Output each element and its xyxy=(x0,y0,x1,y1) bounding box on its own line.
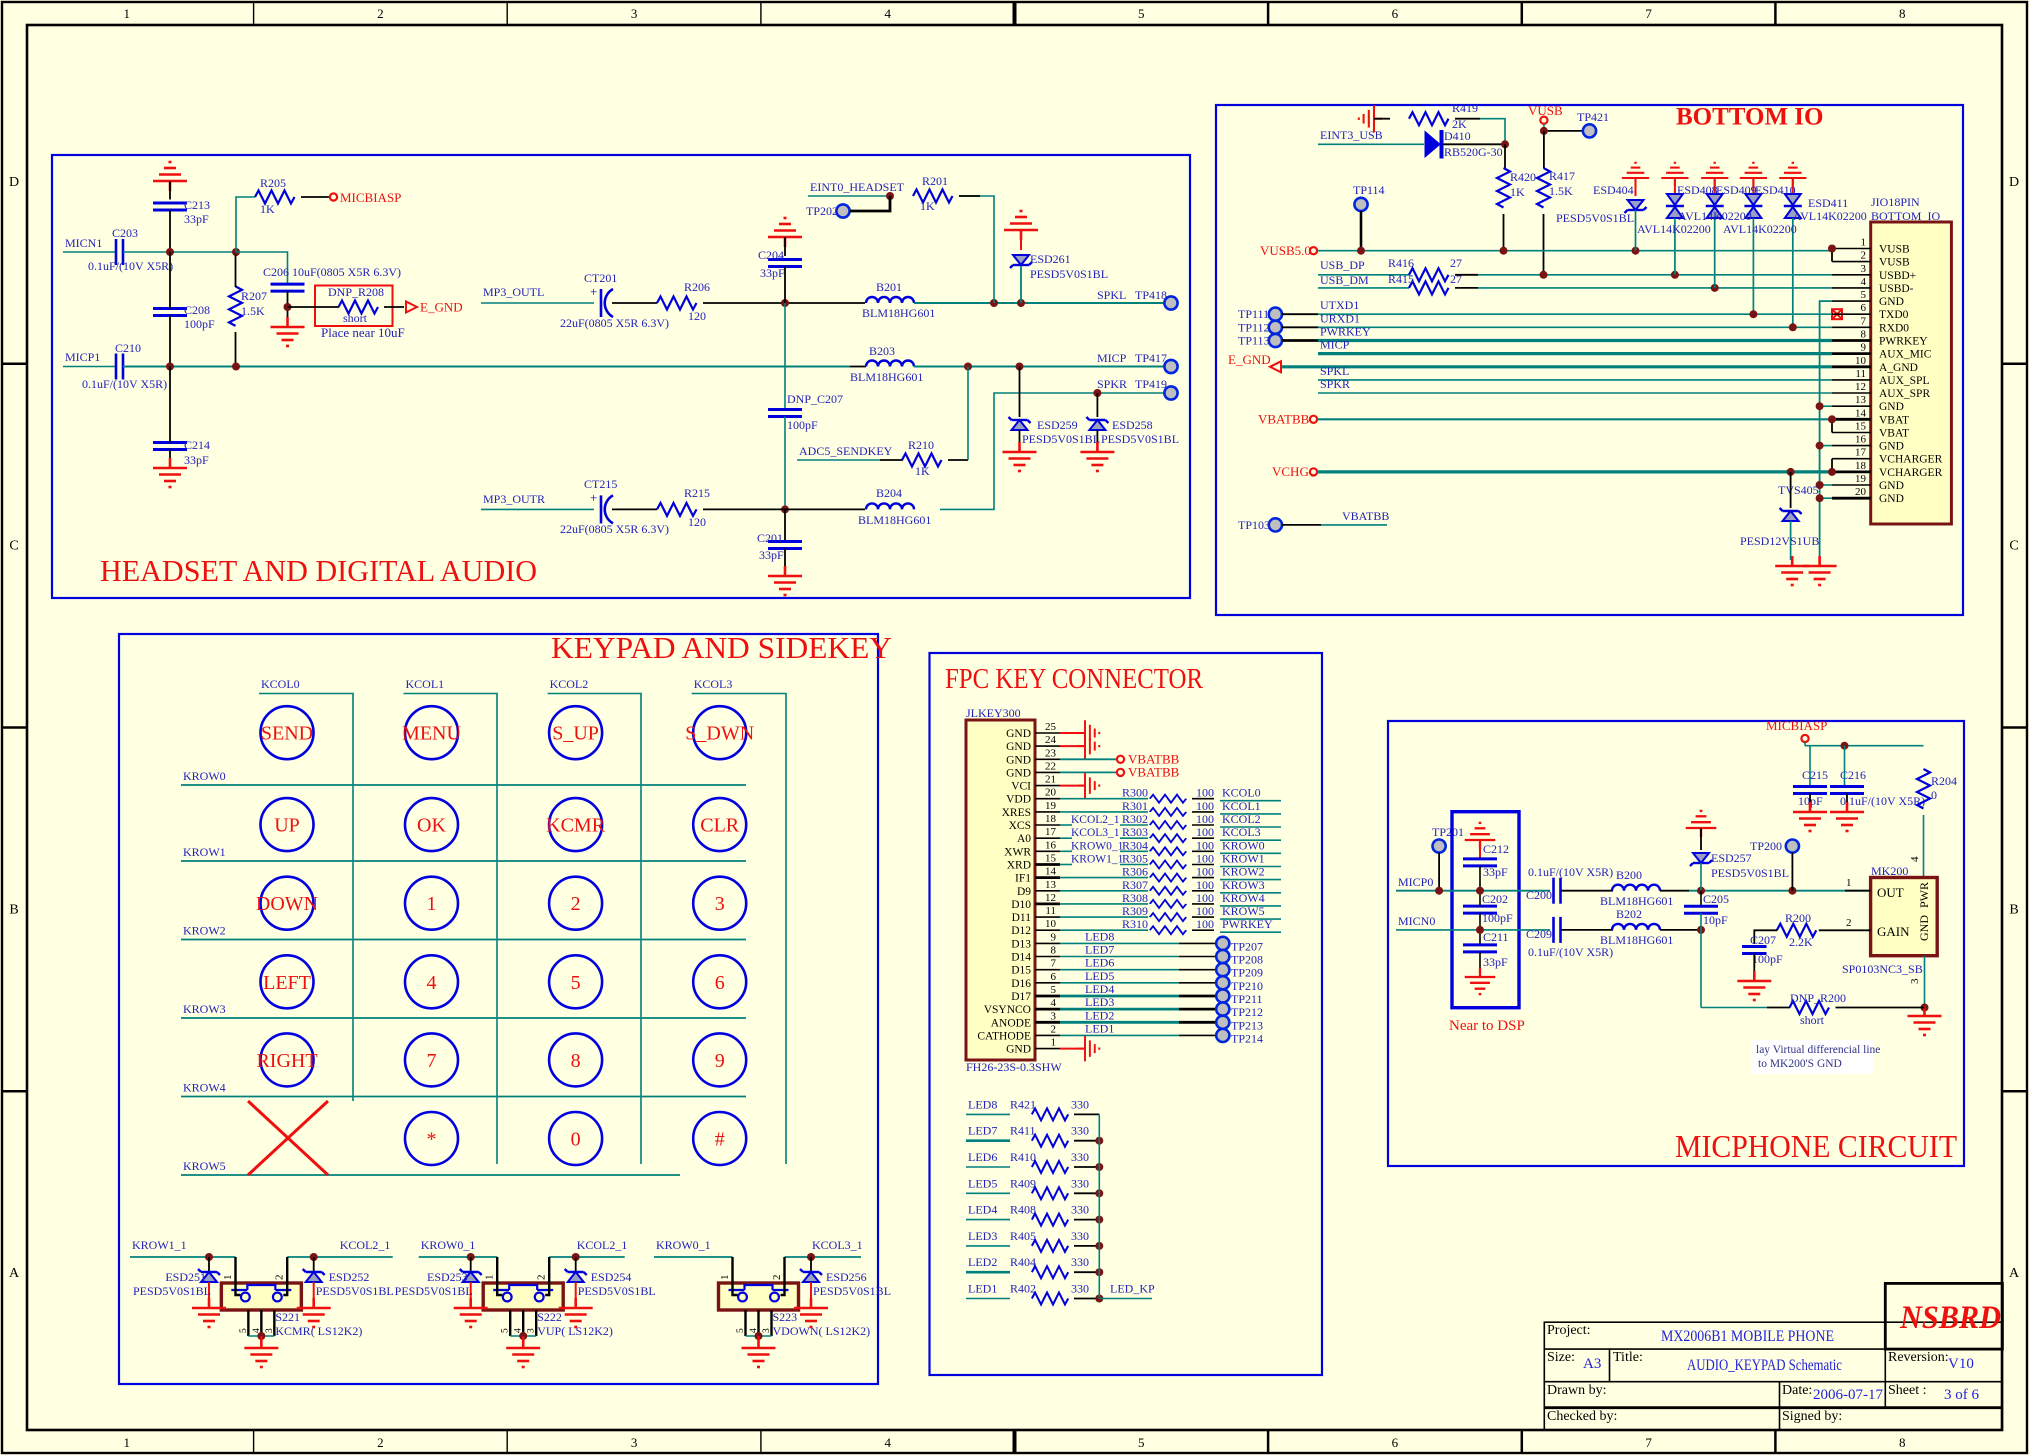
svg-text:USBD-: USBD- xyxy=(1879,283,1914,295)
ground below ESD258 xyxy=(1080,442,1114,471)
svg-text:4: 4 xyxy=(884,1435,891,1450)
wire gnd to R419 xyxy=(1374,118,1390,120)
svg-text:TP417: TP417 xyxy=(1135,351,1167,365)
svg-text:SPKL: SPKL xyxy=(1097,288,1126,302)
svg-text:100: 100 xyxy=(1196,812,1214,826)
svg-text:12: 12 xyxy=(1855,381,1866,393)
wire MICP0 xyxy=(1396,890,1550,892)
svg-text:LED5: LED5 xyxy=(968,1176,997,1190)
svg-text:VCHARGER: VCHARGER xyxy=(1879,467,1943,479)
note lay Virtual differencial line xyxy=(1751,1040,1873,1074)
svg-text:SEND: SEND xyxy=(261,723,313,745)
svg-text:R206: R206 xyxy=(684,280,710,294)
pin 12 D10 of JLKEY300 xyxy=(1035,903,1060,906)
svg-text:S221: S221 xyxy=(275,1310,300,1324)
testpoint TP103 xyxy=(1269,518,1282,531)
zone column tick top 7 xyxy=(1774,2,1777,25)
svg-text:R205: R205 xyxy=(260,176,286,190)
svg-text:lay Virtual differencial line: lay Virtual differencial line xyxy=(1756,1044,1880,1056)
junction R208 tap xyxy=(284,303,292,311)
svg-text:ESD258: ESD258 xyxy=(1112,418,1153,432)
svg-text:KCOL1: KCOL1 xyxy=(1222,799,1261,813)
pin 20 GND of JIO18PIN xyxy=(1832,497,1871,500)
pin 9 AUX_MIC of JIO18PIN xyxy=(1832,352,1871,355)
testpoint TP114 xyxy=(1354,198,1367,211)
junction UTXD1-ESD410 xyxy=(1749,310,1757,318)
svg-text:LED3: LED3 xyxy=(1085,995,1114,1009)
wire gnd to ESD411 xyxy=(1792,178,1794,196)
svg-text:R409: R409 xyxy=(1010,1176,1036,1190)
key * xyxy=(405,1112,458,1165)
svg-text:1: 1 xyxy=(222,1275,234,1281)
wire LED2 to TP213 xyxy=(1060,1021,1179,1024)
svg-text:7: 7 xyxy=(427,1050,437,1072)
pin 3 USBD+ of JIO18PIN xyxy=(1832,274,1871,276)
svg-text:KCOL3: KCOL3 xyxy=(1222,825,1261,839)
svg-text:R308: R308 xyxy=(1122,891,1148,905)
zone column tick bottom 5 xyxy=(1267,1430,1270,1453)
wire R208 right to E_GND xyxy=(384,306,404,308)
svg-text:TP210: TP210 xyxy=(1231,979,1263,993)
capacitor C215 xyxy=(1809,746,1811,787)
svg-text:RXD0: RXD0 xyxy=(1879,322,1909,334)
svg-text:Reversion:: Reversion: xyxy=(1888,1350,1949,1365)
svg-text:FH26-23S-0.3SHW: FH26-23S-0.3SHW xyxy=(966,1060,1062,1074)
svg-text:BLM18HG601: BLM18HG601 xyxy=(862,306,935,320)
section box HEADSET AND DIGITAL AUDIO xyxy=(52,155,1190,598)
pin 22 GND of JLKEY300 xyxy=(1035,771,1060,773)
diode ESD258 xyxy=(1096,393,1098,417)
svg-text:DNP_R208: DNP_R208 xyxy=(328,285,384,299)
pin 11 D11 of JLKEY300 xyxy=(1035,916,1060,918)
svg-text:S_DWN: S_DWN xyxy=(685,723,754,745)
svg-text:AUX_MIC: AUX_MIC xyxy=(1879,349,1932,361)
zone column tick top 6 xyxy=(1521,2,1524,25)
svg-text:KROW0: KROW0 xyxy=(1222,838,1265,852)
resistor R302 100 to KCOL2 xyxy=(1060,824,1072,826)
svg-text:D9: D9 xyxy=(1017,886,1031,898)
svg-text:KROW1: KROW1 xyxy=(183,845,226,859)
svg-text:B204: B204 xyxy=(876,486,902,500)
svg-text:0.1uF/(10V X5R): 0.1uF/(10V X5R) xyxy=(1528,945,1613,959)
svg-text:1.5K: 1.5K xyxy=(241,304,265,318)
svg-text:KROW5: KROW5 xyxy=(1222,904,1265,918)
svg-text:V10: V10 xyxy=(1948,1356,1974,1372)
svg-text:KROW0_1: KROW0_1 xyxy=(656,1238,711,1252)
pin 17 VCHARGER of JIO18PIN xyxy=(1832,458,1871,460)
junction rail C216 xyxy=(1841,742,1849,750)
svg-text:2.2K: 2.2K xyxy=(1789,935,1813,949)
svg-text:14: 14 xyxy=(1855,407,1867,419)
resistor R300 100 to KCOL0 xyxy=(1060,798,1148,800)
svg-text:LED6: LED6 xyxy=(1085,956,1114,970)
svg-text:GND: GND xyxy=(1006,754,1031,766)
ground below ESD259 xyxy=(1003,442,1037,471)
wire KROW0_1 xyxy=(419,1256,498,1258)
svg-text:2: 2 xyxy=(771,1275,783,1281)
svg-text:2: 2 xyxy=(1846,917,1852,929)
svg-text:C201: C201 xyxy=(757,531,783,545)
key SEND xyxy=(261,706,314,759)
svg-text:PESD5V0S1BL: PESD5V0S1BL xyxy=(1030,267,1108,281)
ground below ESD252 xyxy=(297,1298,331,1327)
svg-text:18: 18 xyxy=(1045,813,1057,825)
svg-text:100: 100 xyxy=(1196,865,1214,879)
svg-text:16: 16 xyxy=(1045,839,1057,851)
svg-text:LED8: LED8 xyxy=(968,1097,997,1111)
svg-text:LED7: LED7 xyxy=(1085,943,1114,957)
svg-text:D: D xyxy=(2009,175,2019,190)
wire B200 to ESD257 node xyxy=(1660,890,1689,892)
svg-text:D14: D14 xyxy=(1011,952,1031,964)
svg-text:ESD410: ESD410 xyxy=(1755,183,1796,197)
svg-text:TP201: TP201 xyxy=(1432,825,1464,839)
svg-text:1: 1 xyxy=(1051,1037,1057,1049)
wire TP201 to MICP0 xyxy=(1438,853,1440,891)
section box BOTTOM IO xyxy=(1216,105,1963,615)
svg-text:MP3_OUTR: MP3_OUTR xyxy=(483,492,545,506)
wire MICN1 to C206 column xyxy=(236,252,288,284)
wire VCHARGER xyxy=(1317,470,1832,473)
svg-text:PWRKEY: PWRKEY xyxy=(1222,917,1273,931)
svg-text:VBATBB: VBATBB xyxy=(1128,764,1180,779)
wire SPKR run xyxy=(940,393,1164,509)
capacitor C204 xyxy=(768,260,802,267)
svg-text:MICP1: MICP1 xyxy=(65,350,100,364)
pin 19 GND of JIO18PIN xyxy=(1832,484,1871,486)
svg-text:D16: D16 xyxy=(1011,978,1031,990)
wire C206 to gnd node xyxy=(287,291,289,327)
wire USB_DP xyxy=(1318,274,1409,276)
svg-text:5: 5 xyxy=(501,1328,511,1333)
power flag E_GND xyxy=(406,302,417,313)
wire C208 bottom xyxy=(169,316,171,367)
svg-text:LEFT: LEFT xyxy=(263,972,311,994)
svg-text:0.1uF/(10V X5R): 0.1uF/(10V X5R) xyxy=(88,259,173,273)
svg-text:8: 8 xyxy=(1051,945,1057,957)
svg-text:1: 1 xyxy=(1846,877,1852,889)
svg-text:ESD257: ESD257 xyxy=(1711,851,1752,865)
svg-text:PESD5V0S1BL: PESD5V0S1BL xyxy=(1101,432,1179,446)
svg-text:KCOL2_1: KCOL2_1 xyxy=(1071,814,1120,826)
svg-text:UTXD1: UTXD1 xyxy=(1320,298,1359,312)
ground TVS405 xyxy=(1775,556,1809,585)
ground above C212 xyxy=(1465,823,1496,849)
wire C203 to R207 xyxy=(123,251,236,253)
svg-text:XRES: XRES xyxy=(1002,807,1031,819)
key S_UP xyxy=(549,706,602,759)
diode ESD261 xyxy=(1010,255,1032,268)
svg-text:R402: R402 xyxy=(1010,1282,1036,1296)
ground left of R419 xyxy=(1359,105,1382,132)
svg-text:2: 2 xyxy=(377,1435,384,1450)
capacitor C216 xyxy=(1844,746,1846,787)
wire pin2 of S223 xyxy=(781,1257,785,1295)
svg-text:3: 3 xyxy=(715,893,725,915)
svg-text:VCHG: VCHG xyxy=(1272,464,1309,479)
capacitor C207 xyxy=(1742,947,1766,954)
svg-text:LED3: LED3 xyxy=(968,1229,997,1243)
svg-text:TP103: TP103 xyxy=(1238,518,1270,532)
wire LED7 to TP208 xyxy=(1060,956,1179,958)
wire R206 to C204 node xyxy=(703,302,865,304)
svg-text:6: 6 xyxy=(1392,1435,1399,1450)
svg-text:MICN0: MICN0 xyxy=(1398,914,1435,928)
svg-text:0: 0 xyxy=(1931,788,1937,802)
svg-text:USB_DM: USB_DM xyxy=(1320,273,1369,287)
svg-text:MP3_OUTL: MP3_OUTL xyxy=(483,285,544,299)
zone column tick bottom 3 xyxy=(760,1430,762,1453)
resistor R409 330 xyxy=(966,1192,1010,1194)
svg-text:KROW3: KROW3 xyxy=(1222,878,1265,892)
pin 3 ANODE of JLKEY300 xyxy=(1035,1021,1060,1024)
key 7 xyxy=(405,1033,458,1086)
key MENU xyxy=(405,706,458,759)
svg-text:ESD254: ESD254 xyxy=(591,1270,632,1284)
testpoint TP417 xyxy=(1164,360,1177,373)
svg-text:MX2006B1 MOBILE PHONE: MX2006B1 MOBILE PHONE xyxy=(1661,1328,1834,1345)
junction MICP-R210col xyxy=(964,363,972,371)
junction EINT0-TP202 xyxy=(886,192,894,200)
svg-text:FPC KEY CONNECTOR: FPC KEY CONNECTOR xyxy=(945,663,1204,695)
svg-text:1: 1 xyxy=(1861,237,1867,249)
svg-text:C208: C208 xyxy=(184,303,210,317)
resistor R215 xyxy=(657,503,697,516)
inductor B200 xyxy=(1612,885,1660,891)
capacitor C205 xyxy=(1700,891,1702,907)
svg-text:KCOL2_1: KCOL2_1 xyxy=(340,1238,391,1252)
svg-text:D12: D12 xyxy=(1011,925,1031,937)
wire A_GND xyxy=(1281,365,1832,368)
svg-text:Size:: Size: xyxy=(1547,1350,1575,1365)
svg-text:19: 19 xyxy=(1045,800,1057,812)
svg-text:R421: R421 xyxy=(1010,1097,1036,1111)
svg-text:GAIN: GAIN xyxy=(1877,924,1910,939)
wire KCOL0 column xyxy=(259,694,353,1102)
wire DNP_C207 to B204 rail xyxy=(784,417,786,510)
svg-text:330: 330 xyxy=(1071,1282,1089,1296)
junction MICP0-TP201 xyxy=(1435,887,1443,895)
junction MICP0-ESD257 xyxy=(1697,887,1705,895)
svg-text:GND: GND xyxy=(1879,493,1904,505)
svg-text:C209: C209 xyxy=(1526,927,1552,941)
svg-text:MICBIASP: MICBIASP xyxy=(1766,718,1827,733)
svg-text:7: 7 xyxy=(1645,1435,1652,1450)
svg-text:D410: D410 xyxy=(1444,129,1471,143)
title block column lines xyxy=(1609,1349,1611,1382)
svg-text:5: 5 xyxy=(1138,6,1145,21)
svg-text:CATHODE: CATHODE xyxy=(977,1030,1031,1042)
svg-text:11: 11 xyxy=(1045,905,1056,917)
svg-text:MICP: MICP xyxy=(1320,338,1350,352)
svg-text:XCS: XCS xyxy=(1009,820,1031,832)
key OK xyxy=(405,798,458,851)
svg-text:EINT3_USB: EINT3_USB xyxy=(1320,128,1383,142)
svg-text:100: 100 xyxy=(1196,917,1214,931)
svg-text:C210: C210 xyxy=(115,341,141,355)
svg-text:100: 100 xyxy=(1196,904,1214,918)
wire CT201 to R206 xyxy=(612,302,657,304)
svg-text:6: 6 xyxy=(1861,302,1867,314)
diode ESD259 xyxy=(1019,367,1021,418)
key 9 xyxy=(693,1033,746,1086)
svg-text:R420: R420 xyxy=(1510,170,1536,184)
wire LED1 to TP214 xyxy=(1060,1034,1179,1036)
svg-text:*: * xyxy=(427,1129,437,1151)
svg-text:D11: D11 xyxy=(1012,912,1032,924)
zone row tick left xyxy=(2,1090,27,1093)
svg-text:R207: R207 xyxy=(241,289,267,303)
ground pin 25 JLKEY300 xyxy=(1060,732,1085,734)
svg-text:GND: GND xyxy=(1879,480,1904,492)
svg-text:R415: R415 xyxy=(1388,272,1414,286)
wire R416 to pin3 xyxy=(1455,274,1478,276)
svg-text:SPKL: SPKL xyxy=(1320,364,1349,378)
svg-text:7: 7 xyxy=(1645,6,1652,21)
svg-text:8: 8 xyxy=(1861,329,1867,341)
svg-text:D15: D15 xyxy=(1011,965,1031,977)
svg-text:20: 20 xyxy=(1045,787,1057,799)
svg-text:S_UP: S_UP xyxy=(552,723,599,745)
key 3 xyxy=(693,877,746,930)
pin 23 GND of JLKEY300 xyxy=(1035,758,1060,760)
svg-text:PESD5V0S1BL: PESD5V0S1BL xyxy=(1556,211,1634,225)
testpoint TP200 xyxy=(1786,840,1799,853)
title block outline xyxy=(1544,1322,2002,1430)
svg-text:ESD253: ESD253 xyxy=(427,1270,468,1284)
svg-text:AUDIO_KEYPAD Schematic: AUDIO_KEYPAD Schematic xyxy=(1687,1357,1842,1374)
svg-text:MICPHONE CIRCUIT: MICPHONE CIRCUIT xyxy=(1675,1128,1957,1164)
wire R204 to MK200 pin4 xyxy=(1923,815,1925,878)
resistor R210 xyxy=(880,459,903,461)
svg-text:2: 2 xyxy=(377,6,384,21)
ground below MK200 xyxy=(1924,1008,1926,1017)
svg-text:33pF: 33pF xyxy=(1483,865,1508,879)
svg-text:33pF: 33pF xyxy=(184,453,209,467)
svg-text:8: 8 xyxy=(1899,1435,1906,1450)
svg-text:R417: R417 xyxy=(1549,169,1575,183)
svg-text:+: + xyxy=(590,284,597,299)
resistor R405 330 xyxy=(966,1245,1010,1247)
svg-text:27: 27 xyxy=(1450,272,1462,286)
ground below C211 xyxy=(1479,952,1481,977)
wire KROW3 xyxy=(181,1017,746,1019)
wire pin2 of S222 xyxy=(545,1257,549,1295)
resistor R410 330 xyxy=(966,1166,1010,1168)
svg-text:USB_DP: USB_DP xyxy=(1320,258,1365,272)
capacitor C202 xyxy=(1463,906,1497,913)
wire gnd to ESD408 xyxy=(1674,178,1676,196)
key 1 xyxy=(405,877,458,930)
svg-text:LED2: LED2 xyxy=(1085,1008,1114,1022)
svg-text:1: 1 xyxy=(124,1435,131,1450)
svg-text:R408: R408 xyxy=(1010,1203,1036,1217)
svg-text:21: 21 xyxy=(1045,774,1056,786)
svg-text:C204: C204 xyxy=(758,248,784,262)
pin 4 VSYNCO of JLKEY300 xyxy=(1035,1008,1060,1011)
svg-text:0.1uF/(10V X5R): 0.1uF/(10V X5R) xyxy=(1840,794,1925,808)
ground below C207 xyxy=(1737,971,1771,1000)
capacitor C208 xyxy=(153,309,187,316)
key LEFT xyxy=(261,955,314,1008)
key 4 xyxy=(405,955,458,1008)
svg-text:MENU: MENU xyxy=(402,723,461,745)
svg-text:URXD1: URXD1 xyxy=(1320,311,1360,325)
junction SPKL-R201col xyxy=(990,299,998,307)
ground below C216 xyxy=(1846,794,1848,813)
wire ESD261 to SPKL xyxy=(1020,266,1022,303)
svg-text:OUT: OUT xyxy=(1877,885,1904,900)
svg-text:Sheet :: Sheet : xyxy=(1888,1383,1927,1398)
junction gnd bus pin13 xyxy=(1820,405,1832,407)
svg-text:330: 330 xyxy=(1071,1150,1089,1164)
svg-text:20: 20 xyxy=(1855,486,1867,498)
svg-text:TP208: TP208 xyxy=(1231,953,1263,967)
svg-text:9: 9 xyxy=(715,1050,725,1072)
resistor DNP_R200 xyxy=(1701,1007,1767,1009)
svg-text:KROW4: KROW4 xyxy=(183,1081,226,1095)
resistor R304 100 to KROW0 xyxy=(1060,850,1072,852)
pin 20 VDD of JLKEY300 xyxy=(1035,798,1060,800)
pin 14 VBAT of JIO18PIN xyxy=(1832,418,1871,421)
svg-text:22: 22 xyxy=(1045,760,1056,772)
wire VUSB5.0 rail xyxy=(1317,250,1832,252)
svg-text:BLM18HG601: BLM18HG601 xyxy=(1600,933,1673,947)
testpoint TP202 xyxy=(836,204,849,217)
zone column tick bottom 1 xyxy=(253,1430,255,1453)
svg-text:KCOL2_1: KCOL2_1 xyxy=(577,1238,628,1252)
svg-text:C213: C213 xyxy=(184,198,210,212)
key RIGHT xyxy=(261,1033,314,1086)
capacitor DNP_C207 xyxy=(784,303,786,409)
svg-text:IF1: IF1 xyxy=(1015,873,1031,885)
svg-text:VBAT: VBAT xyxy=(1879,428,1909,440)
svg-text:TP207: TP207 xyxy=(1231,939,1263,953)
svg-text:9: 9 xyxy=(1861,342,1867,354)
wire R205 to MICBIASP xyxy=(301,196,330,198)
svg-text:VSYNCO: VSYNCO xyxy=(984,1004,1031,1016)
ground below C214 xyxy=(153,458,187,487)
svg-text:VUSB: VUSB xyxy=(1879,244,1910,256)
pin 7 RXD0 of JIO18PIN xyxy=(1832,326,1871,328)
pin 4 USBD- of JIO18PIN xyxy=(1832,287,1871,289)
wire B201 out xyxy=(914,302,1164,304)
zone column tick top 2 xyxy=(506,2,508,25)
ground below ESD254 xyxy=(559,1298,593,1327)
svg-text:2: 2 xyxy=(274,1275,286,1281)
junction URXD1-ESD411 xyxy=(1789,323,1797,331)
svg-text:Near to DSP: Near to DSP xyxy=(1449,1018,1525,1034)
svg-text:AUX_SPR: AUX_SPR xyxy=(1879,388,1930,400)
resistor R301 100 to KCOL1 xyxy=(1060,811,1148,813)
testpoint TP211 xyxy=(1216,989,1229,1002)
svg-text:VUSB: VUSB xyxy=(1528,103,1563,118)
svg-text:TXD0: TXD0 xyxy=(1879,309,1909,321)
svg-text:100: 100 xyxy=(1196,825,1214,839)
key CLR xyxy=(693,798,746,851)
junction USB_DP-ESD408 xyxy=(1671,271,1679,279)
switch S222 VUP( LS12K2) xyxy=(483,1283,563,1310)
svg-text:XWR: XWR xyxy=(1004,846,1031,858)
svg-text:100pF: 100pF xyxy=(1482,911,1513,925)
resistor R206 xyxy=(657,297,697,310)
wire R420 to VUSB5.0 rail xyxy=(1503,214,1505,251)
svg-text:4: 4 xyxy=(884,6,891,21)
capacitor CT215 xyxy=(601,495,613,523)
svg-text:1K: 1K xyxy=(260,202,275,216)
resistor R303 100 to KCOL3 xyxy=(1060,837,1072,839)
wire gnd to ESD261 xyxy=(1020,230,1022,250)
